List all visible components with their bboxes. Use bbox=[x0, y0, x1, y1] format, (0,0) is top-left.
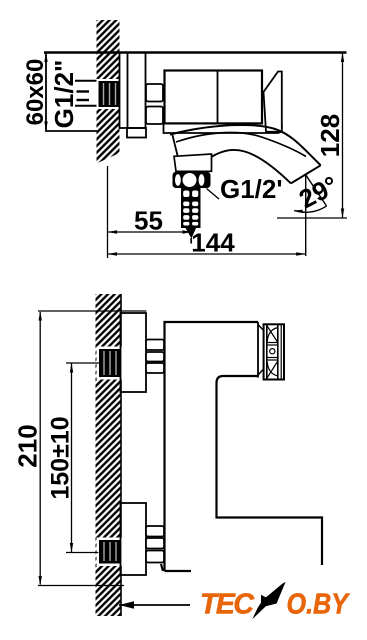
spout mount side bbox=[172, 133, 178, 157]
extension line (spout outlet level) bbox=[277, 217, 347, 219]
wall escutcheon plate (right of wall) bbox=[120, 53, 147, 138]
svg-text:TEC: TEC bbox=[200, 589, 254, 621]
svg-text:60x60: 60x60 bbox=[22, 59, 49, 126]
outlet collar block bbox=[174, 154, 212, 171]
slanted leg of 29° bbox=[306, 175, 327, 206]
dimension 55 bbox=[108, 231, 193, 233]
svg-text:G1/2': G1/2' bbox=[220, 174, 283, 204]
svg-text:144: 144 bbox=[191, 228, 235, 258]
dimension 144 bbox=[108, 253, 306, 255]
inlet pipe (left of wall) bbox=[75, 81, 98, 106]
leader line bbox=[207, 189, 220, 200]
wall surface arrow bbox=[119, 604, 190, 606]
spout inner line bbox=[176, 133, 306, 157]
threaded inlet in wall (dark block) bbox=[97, 79, 122, 109]
bottom hex nut facets bbox=[146, 526, 164, 563]
svg-text:55: 55 bbox=[134, 206, 163, 236]
main top line bbox=[44, 51, 347, 53]
base plate under body bbox=[164, 123, 282, 133]
lever handle blade (top figure) bbox=[264, 72, 282, 132]
dimension 60x60 arrows bbox=[44, 53, 47, 63]
spout top edge bbox=[170, 125, 321, 165]
stub tip bbox=[186, 228, 197, 239]
60x60 wall plate (left of wall) bbox=[46, 53, 97, 132]
bottom inlet connector (dark, in wall) bbox=[97, 538, 124, 567]
shower outlet nut (ball joint) bbox=[173, 172, 211, 188]
dimension 128 bbox=[342, 53, 344, 219]
svg-text:128: 128 bbox=[315, 114, 345, 157]
top mounting plate bbox=[121, 313, 147, 392]
handle (bottom figure) bbox=[258, 325, 264, 376]
logo lightning bolt (N) bbox=[252, 582, 285, 620]
spout bottom edge bbox=[178, 150, 291, 183]
top inlet connector (dark, in wall) bbox=[97, 347, 124, 380]
thread size ticks bbox=[77, 92, 90, 101]
flow line (vertical leg of 29°) bbox=[305, 175, 307, 256]
wall section (bottom figure) bbox=[96, 294, 122, 616]
shower hose threaded stub bbox=[181, 188, 201, 228]
faucet body (top figure) bbox=[165, 71, 263, 124]
top hex nut facets bbox=[146, 340, 164, 374]
svg-text:G1/2": G1/2" bbox=[49, 60, 79, 129]
extension line (wall face) bbox=[107, 166, 109, 258]
svg-text:210: 210 bbox=[13, 424, 43, 467]
faucet body outline (bottom figure) bbox=[161, 322, 322, 571]
29° arc bbox=[294, 206, 327, 212]
bottom mounting plate bbox=[121, 503, 147, 575]
svg-text:O.BY: O.BY bbox=[287, 589, 351, 621]
spout end face bbox=[291, 165, 321, 183]
wall section (top figure) bbox=[97, 20, 120, 164]
dimension 150±10 bbox=[71, 363, 73, 553]
dimension 210 bbox=[39, 312, 41, 585]
wall face line bbox=[120, 294, 122, 616]
body internal line bbox=[217, 71, 219, 124]
svg-text:150±10: 150±10 bbox=[47, 416, 75, 499]
inlet hex nut facets (top figure) bbox=[146, 84, 163, 124]
